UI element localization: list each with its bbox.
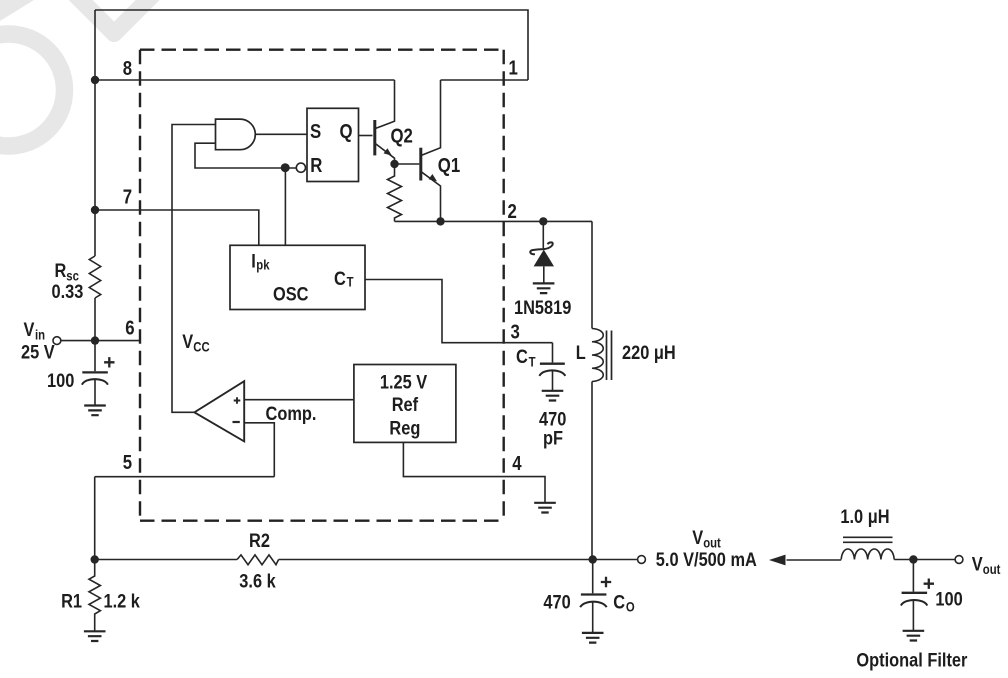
svg-text:5: 5 <box>123 451 132 474</box>
OSC block <box>230 245 365 309</box>
capacitor Co plus sign <box>601 577 611 587</box>
ground: filter cap <box>903 631 925 641</box>
ground: R1 <box>84 631 106 641</box>
svg-text:5.0 V/500 mA: 5.0 V/500 mA <box>656 549 757 571</box>
capacitor 100uF input <box>82 341 108 406</box>
capacitor 100uF input: plus sign <box>104 357 114 367</box>
arrow from filter to output <box>769 555 786 566</box>
svg-text:C: C <box>516 346 528 368</box>
wire: filter inductor to Vout terminal <box>894 559 955 561</box>
wire: pin 2 line (switch emitter rail) <box>395 220 593 222</box>
comparator plus sign <box>234 397 241 404</box>
svg-text:CC: CC <box>193 339 209 354</box>
comparator minus sign <box>233 421 240 423</box>
svg-text:470: 470 <box>543 591 570 613</box>
ground: input cap <box>84 406 106 416</box>
svg-text:pF: pF <box>543 427 563 449</box>
wire: pin 1 segment to Q1 collector <box>441 79 529 81</box>
svg-text:3: 3 <box>511 320 520 343</box>
svg-text:3.6 k: 3.6 k <box>239 570 276 592</box>
node: junction pin 7 <box>91 206 99 214</box>
wire: pin 5 line <box>95 476 275 478</box>
wire: reference to pin 4 ground <box>403 442 545 502</box>
svg-text:6: 6 <box>125 316 134 339</box>
terminal: filtered Vout <box>955 556 963 564</box>
terminal: Vin input <box>53 337 61 345</box>
svg-text:0.33: 0.33 <box>52 281 84 303</box>
svg-text:C: C <box>334 268 346 290</box>
svg-text:pk: pk <box>256 257 269 272</box>
latch box U1 <box>307 108 359 181</box>
svg-text:Ref: Ref <box>392 393 419 415</box>
wire: comparator plus input from reference <box>244 399 354 401</box>
node: feedback divider junction <box>91 555 99 563</box>
wire: inductor to output node <box>591 382 593 560</box>
filter capacitor plus sign <box>924 579 934 589</box>
ground: CT cap <box>542 391 564 401</box>
wire: oscillator output to R junction <box>284 168 286 245</box>
inductor L 220uH <box>592 329 612 382</box>
transistor Q2 <box>375 80 395 164</box>
AND gate <box>216 119 256 150</box>
svg-text:1N5819: 1N5819 <box>514 297 571 319</box>
watermark <box>0 0 164 146</box>
dashed IC boundary box <box>140 50 504 521</box>
wire: AND lower input from R line <box>195 143 297 168</box>
svg-text:C: C <box>613 591 625 613</box>
wire: Rsc to node 6 <box>94 298 96 341</box>
filter inductor 1.0uH <box>841 537 894 559</box>
svg-text:1.0 μH: 1.0 μH <box>840 506 889 528</box>
svg-text:8: 8 <box>123 57 132 80</box>
resistor R1 <box>89 560 100 631</box>
capacitor Co 470uF <box>580 560 606 633</box>
node: Q1 emitter junction <box>436 217 444 225</box>
wire: AND output to latch S <box>255 133 307 135</box>
svg-text:220 μH: 220 μH <box>622 342 676 364</box>
resistor R2 <box>237 555 279 565</box>
wire: pin 6 line <box>61 340 139 342</box>
wire: junction to Q1 base <box>395 163 420 165</box>
svg-text:2: 2 <box>508 200 517 223</box>
node: Q2 emitter / Q1 base junction <box>390 160 398 168</box>
svg-text:R: R <box>310 154 322 177</box>
filter capacitor 100uF <box>901 560 927 631</box>
wire: R2 to output node <box>279 559 593 561</box>
resistor Q2 emitter (base bleed) <box>388 164 402 221</box>
svg-text:1.25 V: 1.25 V <box>380 371 427 393</box>
wire: comparator minus input to pin 5 line <box>244 423 274 477</box>
ground: pin 4 <box>534 503 556 513</box>
svg-text:R: R <box>55 260 67 282</box>
node: junction Vin node <box>91 336 99 344</box>
wire: bottom feedback rail <box>95 559 237 561</box>
wire: pin 8 line <box>95 79 395 81</box>
svg-text:S: S <box>310 120 321 143</box>
wire: latch Q to Q2 base <box>359 135 373 137</box>
latch reset bubble <box>296 163 305 172</box>
wire: pin 5 down to divider <box>94 477 96 560</box>
ground: Co <box>582 633 604 643</box>
svg-text:Comp.: Comp. <box>266 403 317 425</box>
svg-text:Q1: Q1 <box>438 153 460 176</box>
svg-text:I: I <box>251 250 256 272</box>
svg-text:Reg: Reg <box>389 417 420 439</box>
wire: pin 7 line into Ipk <box>95 210 259 245</box>
wire: left input rail <box>94 10 96 256</box>
wire: OSC CT output to pin 3 <box>365 280 553 343</box>
svg-text:R1: R1 <box>61 590 82 612</box>
svg-text:O: O <box>626 600 635 615</box>
svg-text:L: L <box>576 342 586 364</box>
svg-text:V: V <box>24 319 35 341</box>
wire: output node to terminal <box>593 559 638 561</box>
svg-text:V: V <box>692 527 703 549</box>
resistor Rsc <box>89 256 100 298</box>
svg-text:out: out <box>983 562 1001 577</box>
svg-text:T: T <box>347 275 354 290</box>
svg-text:25 V: 25 V <box>21 341 55 363</box>
node: filter cap junction <box>909 555 917 563</box>
svg-text:R2: R2 <box>249 530 270 552</box>
svg-text:V: V <box>972 553 983 575</box>
svg-text:Optional Filter: Optional Filter <box>856 649 967 671</box>
svg-text:Q2: Q2 <box>391 124 413 147</box>
node: output node <box>589 555 597 563</box>
wire: inductor branch from pin 2 <box>591 221 593 328</box>
wire: arrow line to filter <box>787 559 842 561</box>
ground: diode <box>533 283 555 293</box>
svg-text:Q: Q <box>340 120 353 143</box>
node: diode junction <box>539 217 547 225</box>
comparator <box>194 381 244 441</box>
svg-text:100: 100 <box>47 370 74 392</box>
diode D1 1N5819 <box>530 221 554 283</box>
wire: top rail joining pin 8 and pin 1 <box>95 10 528 80</box>
svg-text:V: V <box>182 330 193 352</box>
wire: AND top input from comparator output <box>172 125 216 413</box>
svg-text:7: 7 <box>123 185 132 208</box>
reference regulator block 1.25V <box>354 365 456 443</box>
svg-text:T: T <box>529 355 536 370</box>
node: junction on R line <box>281 163 290 172</box>
node: junction pin8 on left rail <box>91 76 99 84</box>
svg-text:1.2 k: 1.2 k <box>104 590 141 612</box>
svg-text:OSC: OSC <box>273 283 308 305</box>
svg-text:100: 100 <box>935 588 962 610</box>
terminal: Vout <box>638 556 646 564</box>
svg-text:1: 1 <box>509 56 518 79</box>
capacitor CT 470pF <box>539 343 565 391</box>
svg-text:4: 4 <box>512 452 522 475</box>
transistor Q1 <box>421 80 441 221</box>
